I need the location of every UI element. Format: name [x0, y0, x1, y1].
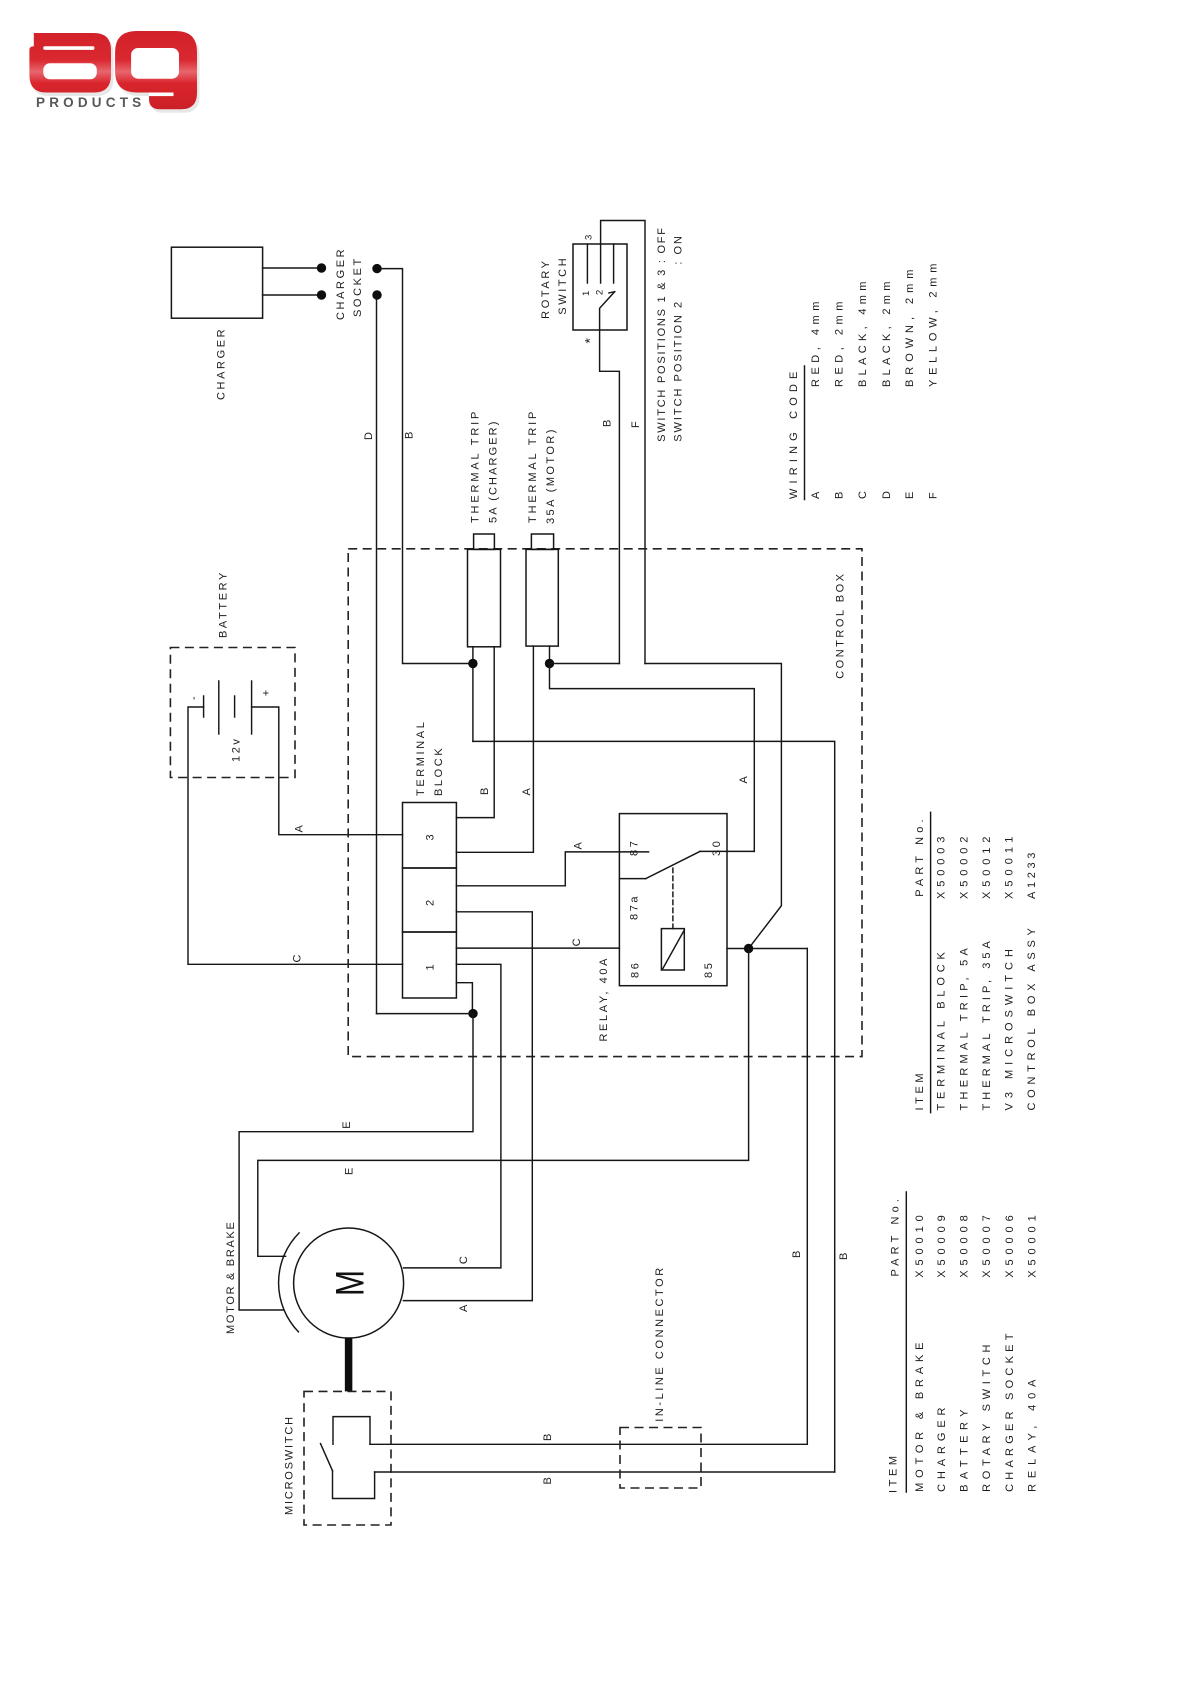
- wire B from rotary common: [600, 330, 620, 664]
- relay coil: [661, 929, 684, 970]
- svg-text:BATTERY: BATTERY: [959, 1406, 971, 1492]
- svg-text:THERMAL TRIP, 35A: THERMAL TRIP, 35A: [981, 938, 993, 1111]
- junction dot relay 85 node: [744, 944, 753, 953]
- svg-text:C: C: [571, 936, 583, 947]
- svg-text:IN-LINE CONNECTOR: IN-LINE CONNECTOR: [654, 1267, 666, 1422]
- svg-text:CHARGER: CHARGER: [216, 327, 228, 400]
- relay 30 stub: [700, 850, 754, 852]
- svg-text:F: F: [630, 419, 642, 428]
- wire C battery negative to terminal 1: [188, 707, 403, 964]
- wire E relay node to brake upper: [258, 949, 749, 1257]
- svg-text:BROWN, 2mm: BROWN, 2mm: [904, 267, 916, 387]
- svg-text:M: M: [329, 1270, 373, 1296]
- rotary contact 3: [613, 244, 615, 283]
- svg-text:WIRING CODE: WIRING CODE: [788, 369, 800, 499]
- thermal trip 5A notch: [474, 534, 495, 549]
- svg-text:E: E: [904, 489, 916, 499]
- svg-text:BLOCK: BLOCK: [433, 746, 445, 796]
- svg-text:MOTOR & BRAKE: MOTOR & BRAKE: [225, 1220, 237, 1334]
- svg-text:CHARGER: CHARGER: [936, 1404, 948, 1492]
- svg-text:CONTROL BOX ASSY: CONTROL BOX ASSY: [1026, 925, 1038, 1111]
- svg-text:E: E: [341, 1119, 353, 1129]
- svg-text:PART No.: PART No.: [890, 1196, 902, 1277]
- svg-text:TERMINAL BLOCK: TERMINAL BLOCK: [936, 949, 948, 1111]
- wire F to relay 85 node: [645, 664, 781, 949]
- svg-text:A: A: [521, 786, 533, 796]
- svg-text:+: +: [261, 687, 273, 696]
- wire charger lead 1: [263, 267, 317, 269]
- label ROTARY SWITCH: [540, 256, 569, 319]
- header underline: [804, 366, 806, 500]
- svg-text:A: A: [458, 1302, 470, 1312]
- microswitch pole: [333, 1471, 375, 1499]
- wire socket D to dot: [377, 1013, 474, 1015]
- svg-text:ITEM: ITEM: [914, 1070, 926, 1111]
- terminal block 2: [403, 868, 457, 932]
- rotary contact 2: [600, 244, 602, 283]
- label THERMAL TRIP 35A (MOTOR): [527, 409, 557, 524]
- charger box: [171, 247, 262, 318]
- wire charger lead 2: [263, 294, 317, 296]
- svg-text:D: D: [363, 429, 375, 440]
- svg-text:MICROSWITCH: MICROSWITCH: [284, 1415, 296, 1515]
- motor circle: [294, 1228, 404, 1338]
- svg-text:12v: 12v: [231, 736, 243, 762]
- wire TT2 dot to rotary B wire: [550, 663, 620, 665]
- svg-text:BLACK, 4mm: BLACK, 4mm: [857, 279, 869, 387]
- wire relay 85 to node: [727, 948, 807, 950]
- wire B microswitch terminal 1: [370, 1443, 807, 1445]
- charger plug dot 2: [317, 290, 326, 299]
- svg-text:A: A: [810, 489, 822, 499]
- brake arc: [279, 1233, 300, 1332]
- svg-text:THERMAL TRIP, 5A: THERMAL TRIP, 5A: [959, 945, 971, 1111]
- label THERMAL TRIP 5A (CHARGER): [469, 409, 499, 523]
- svg-text:B: B: [542, 1431, 554, 1441]
- svg-text:B: B: [479, 785, 491, 795]
- svg-text:B: B: [834, 489, 846, 499]
- svg-text:F: F: [928, 490, 940, 499]
- microswitch arm: [321, 1444, 333, 1471]
- charger socket dot 2: [372, 290, 381, 299]
- relay 87 stub: [619, 851, 648, 853]
- svg-text:5A (CHARGER): 5A (CHARGER): [487, 419, 499, 523]
- svg-text:B: B: [542, 1475, 554, 1485]
- svg-text:BLACK, 2mm: BLACK, 2mm: [881, 279, 893, 387]
- in-line connector dashed box: [620, 1428, 701, 1489]
- wire A battery positive to terminal 3: [252, 707, 403, 835]
- svg-text:SWITCH POSITION 2 : ON: SWITCH POSITION 2 : ON: [673, 236, 685, 442]
- svg-text:ROTARY: ROTARY: [540, 258, 552, 318]
- wire D from socket down: [376, 300, 378, 1014]
- terminal block 3: [403, 803, 457, 869]
- svg-text:2: 2: [425, 897, 437, 906]
- junction dot terminal 1 node: [468, 1009, 477, 1018]
- battery plate short 1: [203, 696, 205, 717]
- svg-text:THERMAL TRIP: THERMAL TRIP: [527, 409, 539, 523]
- thermal trip 35A body: [526, 549, 558, 646]
- battery plate long 2: [251, 681, 253, 734]
- svg-text:TERMINAL: TERMINAL: [415, 720, 427, 796]
- relay 87a stub: [619, 878, 645, 880]
- svg-text:85: 85: [703, 961, 715, 978]
- svg-text:C: C: [458, 1254, 470, 1265]
- svg-text:2: 2: [595, 287, 606, 295]
- svg-text:X50011: X50011: [1004, 833, 1016, 899]
- svg-text:ITEM: ITEM: [887, 1452, 899, 1493]
- wire B from socket to thermal trip: [382, 269, 469, 664]
- svg-text:B: B: [838, 1250, 850, 1260]
- svg-text:ROTARY SWITCH: ROTARY SWITCH: [981, 1341, 993, 1492]
- wire C terminal 1 to motor: [404, 964, 501, 1268]
- label TERMINAL BLOCK: [415, 720, 445, 796]
- parts table main: [887, 1192, 1038, 1493]
- svg-text:E: E: [343, 1165, 355, 1175]
- wire A terminal 2 to motor: [403, 912, 532, 1301]
- wire A terminal 2 to relay 87: [456, 852, 619, 886]
- svg-text:SOCKET: SOCKET: [352, 256, 364, 317]
- svg-text:1: 1: [425, 962, 437, 971]
- svg-text:RELAY, 40A: RELAY, 40A: [1026, 1376, 1038, 1492]
- svg-text:A: A: [294, 823, 306, 833]
- thermal trip 5A body: [468, 549, 501, 646]
- motor shaft link: [345, 1338, 353, 1391]
- svg-text:3: 3: [584, 232, 595, 240]
- svg-text:RELAY, 40A: RELAY, 40A: [598, 956, 610, 1042]
- logo ag: [29, 31, 199, 113]
- svg-text:PRODUCTS: PRODUCTS: [36, 95, 145, 110]
- svg-text:87: 87: [629, 839, 641, 856]
- relay coil dashed link: [672, 866, 674, 929]
- wire TT1 to microswitch leg: [473, 741, 835, 1472]
- wire TT2 dot to relay 30: [550, 664, 755, 852]
- wire TT2 right leg: [549, 646, 551, 663]
- relay box: [619, 814, 727, 986]
- svg-text:35A (MOTOR): 35A (MOTOR): [545, 427, 557, 524]
- svg-text:*: *: [582, 335, 598, 343]
- svg-text:SWITCH: SWITCH: [557, 256, 569, 315]
- svg-text:MOTOR & BRAKE: MOTOR & BRAKE: [914, 1339, 926, 1492]
- rotary arm: [600, 292, 615, 330]
- relay armature: [646, 851, 700, 878]
- svg-text:B: B: [602, 417, 614, 427]
- svg-text:PART No.: PART No.: [914, 816, 926, 897]
- wiring code table: [788, 261, 940, 500]
- terminal block 1: [403, 932, 457, 998]
- svg-text:THERMAL TRIP: THERMAL TRIP: [469, 409, 481, 523]
- wire terminal 1 jog to dot: [456, 983, 472, 1014]
- svg-text:B: B: [791, 1248, 803, 1258]
- svg-text:86: 86: [630, 961, 642, 978]
- wire C terminal 1 to relay 86: [456, 947, 619, 949]
- header rule: [905, 1192, 907, 1492]
- battery plate long 1: [218, 681, 220, 734]
- svg-text:87a: 87a: [629, 894, 641, 920]
- wire thermal trip 5A left leg down: [472, 647, 474, 742]
- svg-text:-: -: [188, 694, 200, 700]
- svg-text:CONTROL BOX: CONTROL BOX: [834, 572, 846, 679]
- wire relay 85 node down to microswitch: [806, 949, 808, 1445]
- svg-text:A1233: A1233: [1026, 849, 1038, 899]
- svg-text:B: B: [404, 429, 416, 439]
- svg-text:CHARGER SOCKET: CHARGER SOCKET: [1004, 1330, 1016, 1492]
- svg-text:30: 30: [711, 839, 723, 856]
- charger plug dot 1: [317, 263, 326, 272]
- svg-text:C: C: [857, 488, 869, 499]
- parts table control box: [914, 812, 1038, 1112]
- svg-text:1: 1: [581, 288, 592, 296]
- svg-text:CHARGER: CHARGER: [335, 247, 347, 320]
- control box dashed outline: [348, 549, 862, 1057]
- charger socket dot 1: [372, 264, 381, 273]
- rotary contact 1: [586, 244, 588, 283]
- wire TT2 left leg to terminal 3: [456, 646, 533, 852]
- svg-text:YELLOW, 2mm: YELLOW, 2mm: [928, 261, 940, 387]
- battery plate short 2: [234, 696, 236, 717]
- microswitch dashed box: [304, 1391, 391, 1525]
- svg-text:BATTERY: BATTERY: [218, 570, 230, 638]
- svg-text:C: C: [292, 952, 304, 963]
- svg-text:V3 MICROSWITCH: V3 MICROSWITCH: [1004, 946, 1016, 1111]
- rotary switch box: [573, 244, 627, 330]
- thermal trip 35A notch: [531, 534, 553, 549]
- wire B microswitch terminal 2: [375, 1471, 835, 1473]
- svg-text:A: A: [573, 840, 585, 850]
- microswitch fixed contact: [333, 1417, 370, 1445]
- wire F top from contact 2: [601, 221, 645, 664]
- svg-text:3: 3: [425, 832, 437, 841]
- relay coil diagonal: [663, 930, 685, 969]
- label CHARGER SOCKET: [335, 247, 364, 320]
- battery dashed box: [170, 648, 295, 778]
- wire B TT1 right leg to terminal 3: [456, 647, 494, 818]
- svg-text:D: D: [881, 488, 893, 499]
- header rule: [930, 812, 932, 1112]
- junction dot TT1: [468, 659, 477, 668]
- wire E dot to brake lower: [239, 1014, 473, 1310]
- svg-text:A: A: [738, 774, 750, 784]
- junction dot TT2: [545, 659, 554, 668]
